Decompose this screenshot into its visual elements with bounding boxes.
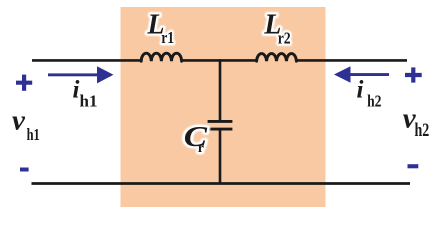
- svg-text:h1: h1: [80, 92, 98, 111]
- svg-text:r2: r2: [278, 29, 291, 48]
- shaded resonant-tank region: [121, 7, 326, 207]
- svg-text:i: i: [357, 77, 364, 104]
- label vh1: [12, 105, 40, 145]
- label Cr: [184, 120, 208, 156]
- inductor Lr2: [257, 54, 297, 62]
- svg-text:C: C: [184, 120, 208, 153]
- svg-text:h2: h2: [415, 120, 430, 141]
- label Lr1: [146, 10, 174, 47]
- svg-text:r1: r1: [161, 28, 174, 47]
- wire top-left segment: [32, 59, 141, 62]
- minus terminal left: [20, 168, 29, 172]
- label ih1: [73, 77, 98, 111]
- wire top-middle segment: [181, 59, 256, 62]
- wire bottom rail: [32, 182, 411, 185]
- svg-text:r: r: [198, 141, 204, 156]
- capacitor Cr: [208, 121, 233, 129]
- label vh2: [403, 102, 430, 141]
- svg-text:h1: h1: [27, 125, 40, 144]
- label Lr2: [263, 10, 290, 48]
- minus terminal right: [408, 164, 419, 168]
- label ih2: [357, 77, 382, 111]
- plus terminal right: [405, 67, 422, 82]
- svg-text:h2: h2: [367, 91, 381, 110]
- inductor Lr1: [141, 53, 181, 61]
- wire capacitor bottom lead: [219, 130, 222, 184]
- wire capacitor top lead: [219, 59, 222, 120]
- svg-text:i: i: [73, 77, 80, 104]
- wire top-right segment: [296, 59, 407, 62]
- plus terminal left: [16, 75, 32, 91]
- current arrow ih1: [48, 66, 114, 83]
- svg-text:v: v: [12, 105, 26, 137]
- current arrow ih2: [334, 66, 389, 83]
